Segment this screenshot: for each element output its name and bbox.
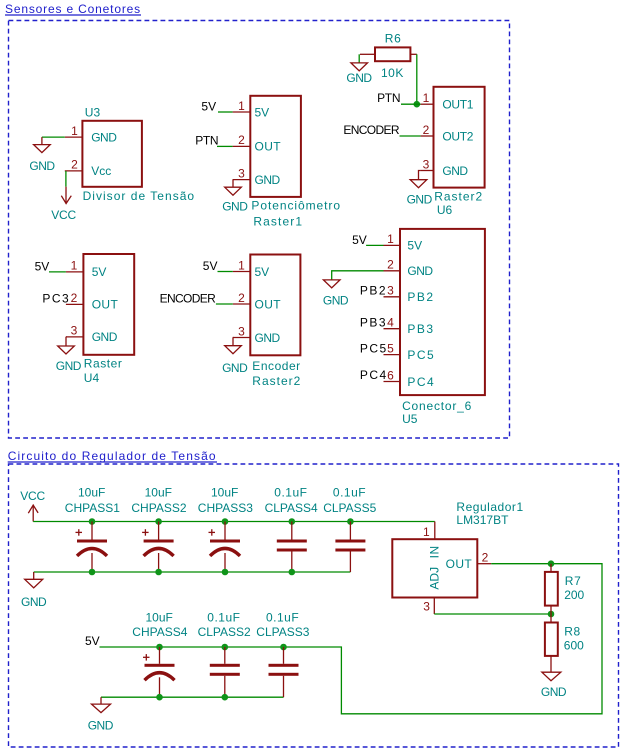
junction OUT at R7	[548, 560, 555, 567]
svg-text:PB3: PB3	[360, 315, 387, 329]
regulator U (LM317BT)	[392, 539, 477, 597]
svg-text:GND: GND	[407, 264, 433, 278]
connector U3	[82, 121, 141, 187]
svg-text:U6: U6	[437, 203, 453, 217]
ground symbol row2	[88, 697, 114, 732]
U5 pin 6	[384, 381, 401, 383]
wire PTN to Raster1 pin2	[217, 145, 233, 147]
U3 pin 1	[65, 136, 83, 138]
svg-text:5V: 5V	[85, 634, 100, 648]
svg-text:CLPASS3: CLPASS3	[256, 625, 309, 639]
svg-text:PTN: PTN	[377, 91, 400, 105]
svg-text:1: 1	[71, 259, 78, 273]
svg-text:1: 1	[238, 258, 245, 272]
svg-text:3: 3	[423, 157, 430, 171]
wire GND rail row2	[101, 696, 284, 698]
U4 pin 3	[66, 336, 84, 338]
svg-text:R8: R8	[564, 625, 581, 639]
svg-text:PC3: PC3	[42, 292, 70, 306]
capacitor CHPASS2	[131, 486, 186, 576]
svg-text:3: 3	[387, 284, 394, 298]
svg-text:0.1uF: 0.1uF	[266, 611, 299, 625]
wire 5V to Encoder pin1	[218, 271, 233, 273]
U5 pin 4	[384, 328, 401, 330]
svg-text:PB2: PB2	[407, 290, 434, 304]
regulator pin 2 OUT	[477, 563, 491, 565]
regulator pin 1 IN	[434, 522, 436, 540]
svg-text:GND: GND	[222, 361, 248, 375]
capacitor CLPASS4	[265, 486, 318, 576]
U6 pin 1	[421, 103, 434, 105]
U4 pin 1	[66, 271, 84, 273]
ground symbol at Encoder pin3	[222, 338, 248, 376]
svg-text:4: 4	[387, 316, 394, 330]
U6 pin 2	[421, 135, 434, 137]
wire U5 pin2 to ground	[332, 271, 384, 280]
U5 pin 3	[384, 296, 401, 298]
ground symbol at U5 pin2	[323, 280, 349, 308]
svg-text:Raster2: Raster2	[252, 374, 301, 388]
svg-text:1: 1	[387, 232, 394, 246]
svg-text:5V: 5V	[201, 99, 216, 113]
svg-text:GND: GND	[91, 130, 117, 144]
svg-text:3: 3	[71, 324, 78, 338]
Encoder pin 3	[233, 337, 251, 339]
svg-text:OUT: OUT	[255, 140, 282, 154]
section title Sensores e Conetores	[5, 2, 141, 16]
svg-text:CHPASS4: CHPASS4	[132, 625, 187, 639]
ground symbol at U3 pin1	[29, 137, 55, 173]
svg-text:Sensores e Conetores: Sensores e Conetores	[5, 2, 141, 16]
Encoder pin 1	[233, 271, 251, 273]
wire U3 pin2 to VCC	[65, 171, 67, 187]
svg-text:10uF: 10uF	[211, 486, 238, 500]
svg-text:U5: U5	[402, 412, 418, 426]
svg-text:2: 2	[71, 291, 78, 305]
power symbol VCC	[51, 187, 76, 222]
junction PTN node	[414, 101, 421, 108]
svg-text:GND: GND	[255, 331, 281, 345]
svg-text:5V: 5V	[352, 233, 367, 247]
svg-text:6: 6	[387, 368, 394, 382]
svg-text:10uF: 10uF	[78, 486, 105, 500]
svg-text:ENCODER: ENCODER	[343, 123, 399, 137]
svg-text:Vcc: Vcc	[91, 164, 111, 178]
wire VCC rail	[33, 521, 435, 523]
Encoder pin 2	[233, 303, 251, 305]
ground symbol at R6	[346, 63, 372, 85]
svg-text:CLPASS5: CLPASS5	[323, 501, 376, 515]
svg-text:2: 2	[238, 291, 245, 305]
svg-text:PB3: PB3	[407, 322, 434, 336]
wire U3 pin1 to ground	[42, 136, 65, 138]
svg-text:1: 1	[423, 525, 430, 539]
svg-text:OUT: OUT	[446, 557, 473, 571]
svg-text:1: 1	[71, 124, 78, 138]
svg-text:5V: 5V	[92, 265, 107, 279]
resistor R6	[375, 47, 410, 61]
svg-text:CHPASS3: CHPASS3	[198, 501, 253, 515]
regulator pin 3 ADJ	[433, 598, 435, 615]
R6 right lead	[410, 53, 416, 55]
svg-text:Circuito do Regulador de Tensã: Circuito do Regulador de Tensão	[8, 449, 217, 463]
svg-text:CLPASS2: CLPASS2	[198, 625, 251, 639]
svg-text:GND: GND	[541, 685, 567, 699]
svg-text:GND: GND	[29, 159, 55, 173]
svg-text:2: 2	[238, 133, 245, 147]
svg-text:GND: GND	[56, 359, 82, 373]
svg-text:PB2: PB2	[360, 283, 387, 297]
wire ADJ to divider	[434, 613, 551, 615]
U5 pin 1	[384, 244, 401, 246]
resistor R8	[545, 614, 584, 672]
capacitor CLPASS2	[198, 611, 251, 701]
connector U4 (Raster)	[83, 254, 134, 355]
svg-text:U3: U3	[85, 106, 101, 120]
wire 5V to U5 pin1	[366, 244, 383, 246]
connector U6 (Raster2)	[434, 87, 485, 188]
svg-text:PC5: PC5	[407, 348, 435, 362]
svg-text:GND: GND	[222, 200, 248, 214]
svg-text:VCC: VCC	[51, 208, 76, 222]
svg-text:Divisor de Tensão: Divisor de Tensão	[83, 189, 196, 203]
ground symbol at U6 pin3	[407, 171, 433, 207]
svg-text:Conector_6: Conector_6	[402, 399, 472, 413]
svg-text:Raster1: Raster1	[253, 214, 303, 228]
ground symbol below R8	[541, 672, 567, 699]
svg-text:2: 2	[423, 123, 430, 137]
svg-text:R6: R6	[385, 31, 402, 45]
svg-text:OUT2: OUT2	[442, 129, 473, 143]
Raster1 pin 2	[233, 145, 251, 147]
svg-text:Raster2: Raster2	[434, 190, 483, 204]
capacitor CLPASS5	[323, 486, 376, 573]
svg-text:OUT: OUT	[255, 297, 282, 311]
wire R6 to PTN node	[416, 54, 418, 104]
svg-text:PC4: PC4	[407, 375, 435, 389]
svg-text:10uF: 10uF	[146, 611, 173, 625]
connector Raster1 (Potenciômetro)	[250, 96, 301, 197]
svg-text:Regulador1: Regulador1	[456, 500, 523, 514]
svg-text:Raster: Raster	[84, 357, 123, 371]
svg-text:0.1uF: 0.1uF	[207, 611, 240, 625]
connector U5 (Conector_6)	[400, 229, 485, 395]
svg-text:GND: GND	[88, 719, 114, 733]
resistor R7	[545, 564, 585, 614]
section border (dashed)	[9, 464, 619, 747]
svg-text:ADJ: ADJ	[428, 567, 442, 590]
svg-text:GND: GND	[323, 294, 349, 308]
svg-text:5V: 5V	[407, 239, 422, 253]
svg-text:GND: GND	[442, 164, 468, 178]
svg-text:GND: GND	[255, 173, 281, 187]
svg-text:IN: IN	[428, 545, 442, 558]
svg-text:U4: U4	[84, 371, 100, 385]
svg-text:PTN: PTN	[195, 133, 218, 147]
U4 pin 2	[66, 303, 84, 305]
svg-text:5V: 5V	[35, 259, 50, 273]
svg-text:5V: 5V	[255, 105, 270, 119]
svg-text:ENCODER: ENCODER	[160, 291, 216, 305]
ground symbol at Raster1 pin3	[222, 180, 248, 214]
svg-text:10K: 10K	[381, 66, 404, 80]
svg-text:OUT1: OUT1	[442, 98, 473, 112]
svg-text:GND: GND	[21, 595, 47, 609]
svg-text:Encoder: Encoder	[252, 359, 300, 373]
capacitor CHPASS4	[132, 611, 187, 701]
svg-text:CHPASS1: CHPASS1	[65, 501, 120, 515]
capacitor CHPASS1	[65, 486, 120, 576]
svg-text:Potenciômetro: Potenciômetro	[251, 199, 341, 213]
svg-text:10uF: 10uF	[145, 486, 172, 500]
U5 pin 5	[384, 354, 401, 356]
section title Circuito do Regulador de Tensão	[8, 449, 217, 463]
U3 pin 2	[65, 170, 83, 172]
svg-text:0.1uF: 0.1uF	[333, 486, 366, 500]
U5 pin 2	[384, 270, 401, 272]
svg-text:LM317BT: LM317BT	[456, 513, 509, 527]
wire ENCODER to Encoder pin2	[216, 303, 233, 305]
svg-text:GND: GND	[407, 193, 433, 207]
svg-text:GND: GND	[92, 330, 118, 344]
ground symbol at U4 pin3	[56, 337, 82, 373]
wire 5V to U4 pin1	[49, 271, 66, 273]
svg-text:R7: R7	[565, 574, 582, 588]
svg-text:2: 2	[387, 258, 394, 272]
svg-text:600: 600	[564, 639, 584, 653]
wire PTN to U6 pin1	[401, 103, 421, 105]
svg-text:0.1uF: 0.1uF	[274, 486, 307, 500]
wire 5V to Raster1 pin1	[218, 111, 233, 113]
power symbol VCC	[20, 489, 45, 522]
svg-text:2: 2	[482, 551, 489, 565]
svg-text:3: 3	[238, 324, 245, 338]
svg-text:5V: 5V	[203, 259, 218, 273]
U6 pin 3	[421, 170, 434, 172]
junction ADJ node	[548, 611, 555, 618]
svg-text:5: 5	[387, 341, 394, 355]
svg-text:1: 1	[238, 99, 245, 113]
svg-text:200: 200	[564, 588, 584, 602]
svg-text:PC4: PC4	[360, 368, 388, 382]
capacitor CHPASS3	[198, 486, 253, 576]
svg-text:2: 2	[71, 158, 78, 172]
svg-text:3: 3	[238, 166, 245, 180]
Raster1 pin 1	[233, 111, 251, 113]
wire ENCODER to U6 pin2	[400, 135, 421, 137]
svg-text:VCC: VCC	[20, 489, 45, 503]
wire GND rail	[34, 571, 351, 573]
svg-text:3: 3	[423, 600, 430, 614]
section border (dashed)	[9, 21, 510, 439]
svg-text:5V: 5V	[255, 265, 270, 279]
wire R6 to ground	[358, 54, 360, 63]
svg-text:CHPASS2: CHPASS2	[131, 501, 186, 515]
wire OUT net	[100, 564, 603, 714]
connector Encoder Raster2	[250, 255, 300, 356]
ground symbol left of GND rail	[21, 572, 47, 609]
R6 left lead	[360, 53, 375, 55]
capacitor CLPASS3	[256, 611, 309, 698]
Raster1 pin 3	[233, 179, 251, 181]
svg-text:1: 1	[423, 91, 430, 105]
svg-text:GND: GND	[346, 71, 372, 85]
svg-text:PC5: PC5	[360, 341, 388, 355]
svg-text:CLPASS4: CLPASS4	[265, 501, 318, 515]
svg-text:OUT: OUT	[92, 298, 119, 312]
